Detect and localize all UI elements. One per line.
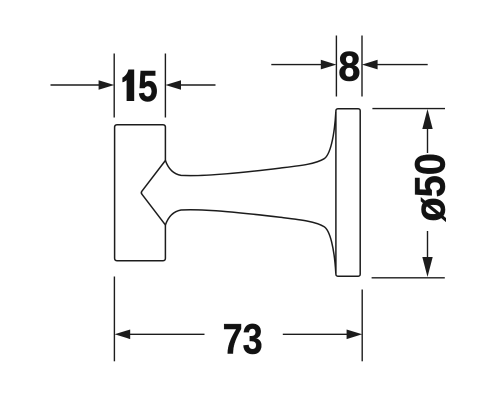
svg-text:8: 8 xyxy=(338,42,360,89)
svg-text:73: 73 xyxy=(223,315,263,363)
svg-text:5: 5 xyxy=(138,62,158,110)
svg-text:ø50: ø50 xyxy=(406,153,454,221)
